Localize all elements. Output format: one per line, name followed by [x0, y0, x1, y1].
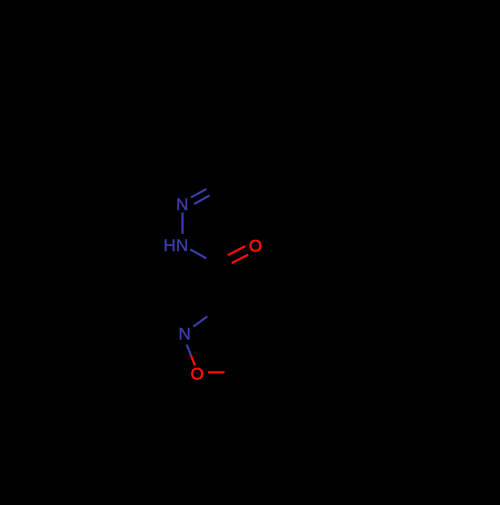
- bond C5-phenyl (black, invisible): [238, 373, 262, 407]
- bond NH-C(=O), blue half: [190, 249, 218, 266]
- bond O1-C5 ring bond, red half: [208, 371, 238, 373]
- bond C4=C5 (black, invisible): [238, 333, 251, 372]
- bond C3-C4 (black, invisible): [218, 309, 252, 334]
- bond C8-phenyl (black, invisible): [217, 142, 219, 184]
- svg-text:N: N: [178, 324, 190, 343]
- bond N1=C8 imine double bond, blue halves: [191, 183, 221, 204]
- svg-text:N: N: [176, 236, 188, 255]
- svg-text:H: H: [164, 236, 176, 255]
- bond N1-N2 hydrazide N-N: [181, 213, 183, 234]
- svg-text:O: O: [191, 364, 204, 383]
- bond N2-O1 ring bond, blue/red halves: [187, 345, 195, 366]
- bond C3-N2 ring bond, blue half: [193, 309, 217, 327]
- svg-text:N: N: [176, 195, 188, 214]
- bond C=O carbonyl double bond, red halves: [218, 246, 248, 268]
- svg-text:O: O: [249, 237, 262, 256]
- bond C(=O)-C3 (black, invisible): [217, 266, 219, 309]
